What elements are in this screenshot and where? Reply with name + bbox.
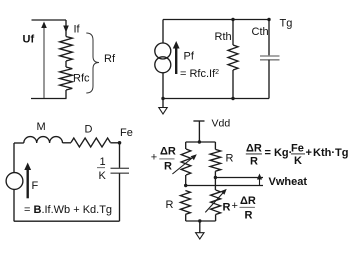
svg-text:= Kg·: = Kg· xyxy=(265,147,293,159)
svg-text:Rfc: Rfc xyxy=(73,73,90,85)
wire D to node Fe xyxy=(110,142,119,144)
wire Rfc to bottom rail xyxy=(65,90,67,99)
svg-text:1: 1 xyxy=(100,156,106,168)
wire upper-left branch lead xyxy=(185,142,187,149)
wire bridge top rail xyxy=(186,141,216,143)
wire source top lead xyxy=(162,20,164,44)
wire upper-right branch lead xyxy=(214,142,216,149)
svg-text:K: K xyxy=(99,170,107,182)
current arrow If xyxy=(65,20,67,37)
svg-text:F: F xyxy=(32,180,39,192)
force arrow F xyxy=(27,167,29,198)
svg-text:If: If xyxy=(74,24,81,36)
svg-text:D: D xyxy=(85,124,93,136)
svg-text:+: + xyxy=(151,152,157,164)
svg-text:Rth: Rth xyxy=(215,31,232,43)
svg-text:Vdd: Vdd xyxy=(212,118,231,130)
node A dot xyxy=(184,184,187,187)
node dot Rth top xyxy=(231,18,234,21)
svg-text:R: R xyxy=(245,210,253,222)
wire output lead from node B xyxy=(215,177,263,179)
wire bottom rail thermal circuit xyxy=(163,98,269,100)
wire source bottom lead xyxy=(162,73,164,99)
wire bottom rail of Uf loop xyxy=(31,98,67,100)
svg-text:K: K xyxy=(294,155,302,167)
svg-text:Rf: Rf xyxy=(104,53,116,65)
node dot bridge bottom xyxy=(198,219,201,222)
wire between resistors xyxy=(65,61,67,67)
wire top-left corner of F loop xyxy=(14,142,24,144)
brace Rf xyxy=(86,33,99,93)
svg-text:R: R xyxy=(226,153,234,165)
svg-text:= B.If.Wb + Kd.Tg: = B.If.Wb + Kd.Tg xyxy=(24,204,112,216)
wire bottom rail of F loop xyxy=(14,220,120,222)
wire between M and D xyxy=(63,142,72,144)
svg-text:R: R xyxy=(166,199,174,211)
svg-text:ΔR: ΔR xyxy=(160,146,176,158)
source F circle xyxy=(6,173,23,190)
power flow arrow Pf xyxy=(175,46,177,74)
current source Pf (two circles) xyxy=(155,43,171,59)
wire Rth bottom lead xyxy=(232,70,234,99)
wire Rth top lead xyxy=(232,20,234,46)
wire lower-left to bottom rail xyxy=(185,214,187,221)
node Fe xyxy=(118,141,122,145)
voltage arrow Vwheat xyxy=(259,177,261,186)
wire left side of F loop xyxy=(13,143,15,173)
capacitor 1/K xyxy=(111,167,130,169)
wire output lead from node A xyxy=(186,185,263,187)
resistor R+dR/R lower-right (variable) xyxy=(211,190,221,215)
variable arrow lower-right xyxy=(205,192,224,213)
Vdd supply tick xyxy=(193,120,204,122)
wire Cth bottom lead xyxy=(268,60,270,99)
wire to node B xyxy=(214,171,216,190)
svg-text:Tg: Tg xyxy=(280,18,293,30)
variable arrow upper-left xyxy=(172,157,194,175)
resistor Rth xyxy=(228,45,238,70)
svg-text:Fe: Fe xyxy=(291,143,304,155)
resistor R lower-left xyxy=(180,191,190,215)
svg-text:Kth·Tg: Kth·Tg xyxy=(313,147,348,159)
svg-text:M: M xyxy=(37,121,46,133)
node dot bridge top xyxy=(198,140,201,143)
svg-text:ΔR: ΔR xyxy=(240,195,256,207)
svg-text:Fe: Fe xyxy=(120,127,133,139)
svg-text:R: R xyxy=(250,156,258,168)
node B dot xyxy=(214,176,217,179)
svg-text:Cth: Cth xyxy=(252,26,269,38)
resistor R1 (upper, unlabeled) xyxy=(60,37,73,62)
ground (thermal circuit) xyxy=(159,108,167,115)
svg-text:ΔR: ΔR xyxy=(246,143,262,155)
svg-text:R: R xyxy=(164,161,172,173)
capacitor Cth xyxy=(260,55,280,57)
wire top rail thermal circuit xyxy=(163,19,269,21)
resistor Rfc xyxy=(60,67,73,90)
wire ground stub bridge xyxy=(199,221,201,233)
node junction dot at source bottom xyxy=(161,97,164,100)
svg-text:Vwheat: Vwheat xyxy=(269,176,308,188)
ground (bridge) xyxy=(196,233,204,239)
voltage arrow Uf xyxy=(43,25,45,98)
inductor M xyxy=(24,137,63,143)
svg-text:+: + xyxy=(232,200,238,212)
wire top rail of Uf loop xyxy=(32,19,67,21)
wire lower-right to bottom rail xyxy=(215,215,217,222)
svg-text:Uf: Uf xyxy=(23,34,35,46)
wire upper-left to node A xyxy=(185,175,187,186)
wire Fe down to capacitor xyxy=(119,143,121,169)
wire bridge bottom rail xyxy=(186,220,216,222)
wire Vdd stub xyxy=(198,121,200,142)
svg-text:+: + xyxy=(306,147,312,159)
wire ground stub xyxy=(162,99,164,108)
node dot top right (Tg node) xyxy=(267,18,270,21)
wire source F bottom lead xyxy=(13,189,15,221)
svg-text:Pf: Pf xyxy=(184,51,195,63)
wire capacitor to bottom rail xyxy=(119,173,121,221)
node dot Rth bottom xyxy=(231,97,234,100)
resistor D xyxy=(71,138,110,147)
resistor R upper-right xyxy=(210,149,221,171)
svg-text:R: R xyxy=(223,202,231,214)
resistor R+dR/R upper-left (variable) xyxy=(181,149,191,175)
svg-text:= Rfc.If2: = Rfc.If2 xyxy=(180,68,219,80)
wire Cth top lead xyxy=(268,20,270,57)
